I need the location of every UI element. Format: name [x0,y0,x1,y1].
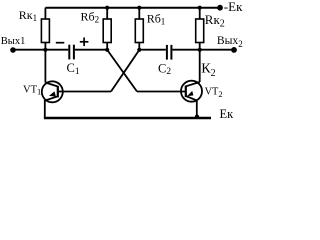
wire VT2 collector vertical [199,50,201,82]
wire Rk1 bottom stub [44,43,46,50]
label plus polarity of C1 horizontal [80,41,89,43]
resistor Rb2 [103,19,111,43]
wire C1 to Rb2 node [75,49,107,51]
wire top supply rail [45,7,220,9]
wire Rk2 bottom stub [199,43,201,50]
transistor VT2 emitter diagonal [186,96,197,100]
transistor VT2 emitter arrow [187,91,193,96]
junction node VT2 collector [198,48,202,52]
wire Rk2 top stub [199,8,201,19]
wire bottom supply rail [44,117,211,119]
wire VT2 emitter vertical [196,100,198,118]
junction node Rk2 top [198,6,202,10]
label minus polarity of C1 [56,42,65,44]
svg-text:VT2: VT2 [205,87,223,99]
capacitor C1 plate left [68,45,70,60]
wire VT1 emitter vertical [44,100,46,118]
wire Rb1 bottom stub [138,43,140,50]
wire Rb1 node to C2 [139,49,166,51]
capacitor C2 plate right [170,45,172,60]
wire Rk1 top stub [44,8,46,19]
wire Rb2 top stub [106,8,108,19]
resistor Rk2 [196,19,204,43]
transistor VT1 collector diagonal [45,83,57,87]
transistor VT2 collector diagonal [186,82,200,86]
transistor VT1 emitter diagonal [45,96,58,100]
junction node VT2 emitter at rail [195,115,199,119]
junction node Rb1 top [137,6,141,10]
junction node VT1 collector [43,48,47,52]
junction node VT1 base net [137,48,141,52]
transistor VT1 emitter arrow [49,91,56,96]
terminal Vyh2 [231,47,237,53]
transistor VT2 base bar [185,86,187,98]
wire VT1 collector vertical [44,50,46,83]
transistor VT2 body circle [181,81,202,102]
svg-text:Вых1: Вых1 [1,36,26,47]
wire Rb2 bottom stub [106,43,108,50]
wire Vyh2 output [200,49,233,51]
terminal -Ek [217,5,223,11]
junction node Rb2 top [105,6,109,10]
transistor VT1 base bar [57,86,59,98]
svg-text:VT1: VT1 [23,85,41,97]
transistor VT1 body circle [42,81,63,102]
wire Vyh1 output to C1 [13,49,68,51]
wire VT2 base horizontal [137,91,186,93]
capacitor C1 plate right [73,45,75,60]
terminal Vyh1 [10,47,16,53]
label plus polarity of C1 vertical [83,38,85,47]
wire Rb1 top stub [138,8,140,19]
wire C2 to Rk2 node [172,49,199,51]
svg-text:Ек: Ек [220,107,235,121]
wire VT1 base horizontal [58,91,111,93]
wire cross-coupling diagonal to VT1 base [111,50,139,92]
resistor Rb1 [135,19,143,43]
junction node VT2 base net [105,48,109,52]
svg-text:-Ек: -Ек [224,0,243,14]
wire cross-coupling diagonal to VT2 base [107,50,137,92]
capacitor C2 plate left [166,45,168,60]
resistor Rk1 [41,19,49,43]
